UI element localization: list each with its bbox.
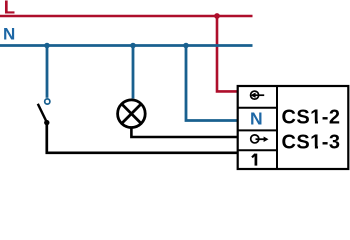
svg-text:L: L xyxy=(4,0,15,18)
svg-text:CS1-2: CS1-2 xyxy=(282,106,341,128)
svg-text:N: N xyxy=(250,108,263,128)
svg-text:CS1-3: CS1-3 xyxy=(282,132,341,154)
svg-text:N: N xyxy=(3,25,15,44)
